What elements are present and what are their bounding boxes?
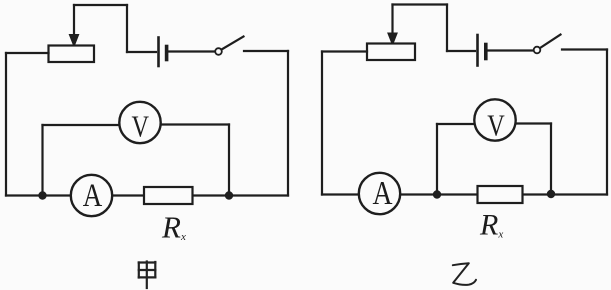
svg-text:A: A [373,175,393,212]
wire: voltmeter branch right vertical down to node [228,125,230,196]
rheostat slider arrowhead [69,35,78,47]
wire: bottom main wire [322,193,607,195]
wire: voltmeter branch left vertical down to node [41,125,43,196]
wire: switch to right vertical [562,48,607,50]
resistor Rx body [144,187,193,204]
wire: vertical drop from top wire to battery wire [126,5,128,52]
svg-text:Rx: Rx [161,210,186,245]
ammeter A circle [71,175,112,216]
rheostat body (slide resistor) [49,46,95,63]
wire: left lead of rheostat [322,50,367,52]
wire: voltmeter branch right horizontal [513,122,551,124]
wire: horizontal into battery left plate [127,51,156,53]
rheostat body (slide resistor) [367,44,415,61]
wire: right outer vertical [287,51,289,196]
svg-text:Rx: Rx [479,209,503,242]
wire: vertical drop from top wire [446,5,448,52]
ammeter A circle [359,173,400,214]
voltmeter V circle [474,99,515,140]
switch pivot circle [534,47,541,54]
switch pivot circle [215,48,222,55]
battery long plate (+) [476,35,479,66]
switch lever (open) [222,37,244,50]
wire: battery to switch [488,49,534,51]
wire: bottom main wire [6,194,288,196]
battery short plate (-) [165,47,169,60]
svg-text:V: V [131,109,149,144]
battery short plate (-) [484,45,488,59]
node: left junction dot [433,190,441,198]
wire: voltmeter branch right horizontal [158,123,229,125]
node: left junction dot [38,191,46,199]
wire: switch to right vertical [244,50,288,52]
switch lever (open) [540,35,561,49]
wire: voltmeter branch left horizontal [437,123,477,125]
svg-text:A: A [83,178,103,214]
voltmeter V circle [119,102,160,143]
wire: voltmeter branch left horizontal [43,124,123,126]
wire: right outer vertical [606,50,608,195]
wire: battery to switch [169,50,215,52]
wire: left outer vertical [321,52,323,195]
battery long plate (+) [157,38,160,67]
wire: left outer vertical [5,53,7,196]
rheostat slider arrow stem [391,5,393,36]
resistor Rx body [478,186,523,203]
node: right junction dot [225,191,233,199]
wire: voltmeter branch right vertical to node [550,124,552,195]
wire: horizontal into battery left plate [447,50,475,52]
svg-text:V: V [487,108,505,143]
node: right junction dot [547,190,555,198]
rheostat slider arrow stem [73,5,75,36]
wire: voltmeter branch left vertical from node [436,124,438,195]
wire: left lead of rheostat [6,52,49,54]
wire: top wire from slider to battery branch [393,3,448,5]
wire: top wire from slider to battery branch [74,4,127,6]
caption: jia (Chinese character) drawn as strokes [139,262,156,289]
rheostat slider arrowhead [388,33,397,45]
caption: yi (Chinese character) drawn as strokes [453,263,476,285]
